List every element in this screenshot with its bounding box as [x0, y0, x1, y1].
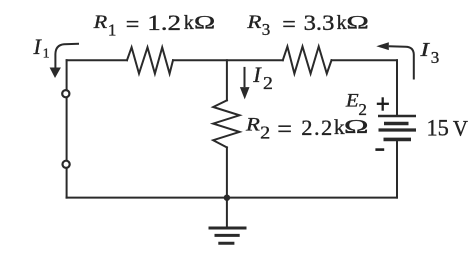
- svg-text:3: 3: [431, 48, 440, 67]
- svg-text:V: V: [453, 116, 469, 141]
- current arrow I2: [240, 67, 250, 100]
- svg-text:I: I: [252, 62, 262, 87]
- svg-text:I: I: [33, 34, 43, 59]
- svg-text:R: R: [245, 116, 260, 136]
- wire top-middle segment: [173, 59, 283, 61]
- svg-text:Ω: Ω: [194, 12, 215, 33]
- label I1: [33, 34, 50, 62]
- svg-text:1.2: 1.2: [147, 11, 181, 35]
- svg-text:1: 1: [43, 47, 50, 62]
- svg-text:R: R: [246, 11, 261, 33]
- battery E2 plates: [378, 116, 416, 139]
- wire left vertical middle: [66, 98, 68, 160]
- label R1 value: [93, 11, 216, 39]
- svg-text:1: 1: [108, 20, 117, 39]
- wire right vertical upper: [396, 60, 398, 115]
- svg-text:2: 2: [260, 124, 270, 143]
- current arrow I3: [376, 42, 414, 79]
- wire right vertical lower: [396, 141, 398, 197]
- svg-text:k: k: [337, 12, 347, 34]
- wire top-right segment: [332, 59, 398, 61]
- svg-text:R: R: [93, 12, 108, 32]
- svg-text:3.3: 3.3: [304, 11, 335, 35]
- label I3: [419, 38, 439, 67]
- wire middle vertical upper: [226, 60, 228, 100]
- label I2: [252, 62, 273, 94]
- svg-text:2: 2: [263, 74, 273, 94]
- label R3 value: [246, 11, 369, 39]
- junction dot: [224, 195, 230, 201]
- svg-text:Ω: Ω: [346, 13, 368, 33]
- battery minus sign: [375, 148, 384, 151]
- label 15 V: [427, 115, 469, 141]
- resistor R3: [283, 47, 332, 74]
- current arrow I1: [50, 44, 79, 78]
- svg-text:15: 15: [427, 115, 449, 141]
- svg-text:k: k: [184, 12, 194, 34]
- wire ground stub: [226, 198, 228, 227]
- terminal circle upper: [62, 90, 69, 97]
- battery plus sign: [377, 97, 389, 110]
- resistor R2: [213, 100, 239, 147]
- wire bottom: [67, 197, 397, 199]
- svg-text:2.2: 2.2: [301, 115, 333, 140]
- svg-text:=: =: [282, 12, 296, 38]
- svg-text:=: =: [277, 115, 292, 144]
- terminal circle lower: [63, 161, 70, 168]
- svg-text:E: E: [345, 91, 359, 112]
- svg-text:3: 3: [262, 20, 271, 39]
- label R2 value: [245, 115, 369, 144]
- wire left vertical upper: [66, 60, 68, 89]
- wire top-left segment: [67, 59, 127, 61]
- ground: [209, 228, 247, 243]
- svg-text:I: I: [419, 38, 430, 61]
- svg-text:2: 2: [358, 100, 367, 119]
- resistor R1: [127, 47, 173, 73]
- label E2: [345, 91, 367, 119]
- wire middle vertical lower: [226, 147, 228, 197]
- svg-text:=: =: [126, 12, 140, 38]
- wire left vertical lower: [66, 169, 68, 198]
